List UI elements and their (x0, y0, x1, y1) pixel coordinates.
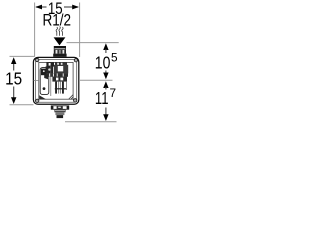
extension line right of top width dimension (79, 3, 81, 58)
valve body right with window (54, 65, 68, 74)
left dimension stems (13, 63, 15, 71)
inlet connection extension line (10.5 top reference) (67, 42, 119, 44)
inlet fitting body (53, 46, 66, 57)
svg-text:15: 15 (5, 69, 22, 89)
lower valve block (52, 77, 67, 82)
left dimension top extension line (10, 55, 36, 57)
left dimension up arrowhead (11, 57, 16, 64)
left dimension down arrowhead (11, 97, 16, 104)
corner screw bottom-left (36, 99, 39, 102)
divider line right of capsule (50, 66, 52, 96)
svg-text:R1/2: R1/2 (43, 11, 72, 30)
svg-text:5: 5 (111, 51, 118, 65)
outlet step 2 (54, 109, 65, 112)
water flow squiggles (56, 27, 63, 36)
pipe columns (55, 82, 57, 94)
service capsule (40, 68, 49, 95)
dimension 11.7 down arrowhead (105, 108, 107, 116)
outlet tip (57, 115, 64, 118)
panel gusset bottom-left (39, 95, 46, 99)
outlet flange (51, 106, 69, 110)
corner screw top-right (74, 59, 77, 62)
dimension 11.7 up arrowhead (103, 81, 108, 88)
top dimension left arrowhead (35, 5, 42, 10)
svg-text:10: 10 (95, 52, 111, 72)
extension line left of top width dimension (34, 3, 36, 57)
dimension 10.5 down arrowhead (105, 71, 107, 74)
corner screw top-left (36, 58, 39, 61)
valve assembly top-right block (55, 62, 67, 67)
valve assembly top-left block (46, 62, 54, 66)
dimension 10.5 up arrowhead (103, 43, 108, 50)
inlet arrow (54, 37, 66, 45)
outlet step 3 (55, 112, 64, 115)
valve body left (46, 66, 54, 73)
valve box outer shell (33, 57, 78, 104)
toothed band (46, 73, 68, 77)
left wedge (44, 74, 48, 79)
panel gusset bottom-right (69, 95, 74, 100)
corner screw bottom-right (74, 99, 77, 102)
outlet axis extension line (right) (79, 79, 113, 81)
top dimension line segments (36, 6, 47, 8)
capsule top cap (41, 69, 47, 76)
left dimension bottom extension line (10, 104, 34, 106)
top dimension right arrowhead (72, 5, 79, 10)
svg-text:7: 7 (110, 86, 117, 100)
left wall tick at outlet axis (34, 80, 39, 82)
valve box inner shell line (36, 60, 77, 103)
pipe collar line (55, 88, 66, 90)
bottom outlet end extension line (65, 121, 117, 123)
svg-text:11: 11 (95, 88, 109, 108)
inner mounting panel (39, 62, 73, 99)
capsule bottom dot (43, 87, 46, 90)
